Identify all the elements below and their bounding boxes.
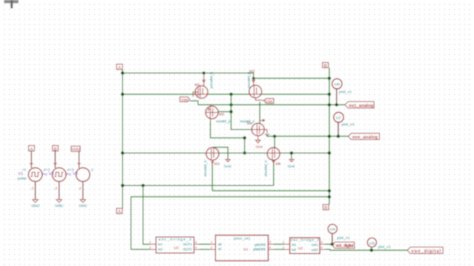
dc source V3	[76, 168, 90, 182]
svg-text:M1: M1	[195, 82, 201, 87]
V1 value labels	[18, 168, 48, 181]
svg-text:vo1_digital: vo1_digital	[336, 243, 354, 248]
svg-text:B: B	[54, 146, 57, 151]
junction A-H3	[121, 184, 124, 187]
svg-text:VDD: VDD	[71, 147, 80, 152]
svg-text:B: B	[324, 63, 327, 68]
node label B (source V2)	[52, 146, 58, 152]
wire H2 gate rail	[123, 93, 330, 95]
pin 4 dac out2	[320, 248, 325, 250]
pin 3 dac out1	[320, 243, 325, 245]
junction H3 drop	[141, 184, 144, 187]
svg-text:in2: in2	[292, 248, 297, 252]
svg-text:U3: U3	[298, 246, 303, 250]
svg-text:adc_bridge_2: adc_bridge_2	[159, 238, 192, 242]
wire H5 to adc in2	[131, 248, 150, 250]
dac_bridge U3	[290, 238, 320, 254]
pmos M4 (middle right)	[240, 119, 269, 140]
wire Vdd rail mid	[198, 104, 345, 106]
wire adc out1 to asic a0	[199, 243, 210, 245]
wire H5	[131, 197, 329, 250]
pin 3 asic out1	[268, 243, 273, 245]
svg-text:out1: out1	[311, 243, 318, 247]
net tag vo1_digital	[332, 242, 354, 248]
wire H1 top rail	[123, 73, 330, 78]
junction H1 step	[252, 77, 255, 80]
net tag vo1_analog	[345, 102, 374, 108]
junction N2 top tap	[273, 135, 276, 138]
svg-text:in1: in1	[158, 243, 163, 247]
node label A (top)	[117, 64, 123, 70]
svg-text:Gnd: Gnd	[224, 164, 231, 168]
pin 4 adc out2	[194, 248, 199, 250]
wire Vdd1 to rail	[190, 101, 198, 105]
svg-text:-2: -2	[90, 168, 93, 172]
junction M1 source-H1	[202, 72, 205, 75]
junction M5 gate	[230, 110, 233, 113]
wire out B mid	[267, 135, 348, 136]
svg-text:Vdd: Vdd	[265, 99, 272, 104]
wire M3 bulk down	[211, 163, 213, 191]
svg-text:U4: U4	[330, 227, 336, 232]
pin 1 dac in1	[284, 243, 289, 245]
pin 4 asic out2	[268, 248, 273, 250]
svg-text:U1: U1	[244, 247, 249, 251]
junction A-H1	[121, 71, 124, 74]
svg-text:Vdd: Vdd	[181, 97, 188, 102]
svg-text:mosfet_p: mosfet_p	[240, 119, 254, 123]
plot probe U5	[367, 238, 391, 250]
junction U4 pin	[331, 243, 334, 246]
svg-text:M5: M5	[219, 112, 224, 116]
svg-text:-2: -2	[54, 187, 57, 191]
svg-text:M3: M3	[214, 162, 219, 166]
node label B (top)	[323, 62, 329, 68]
svg-text:U5: U5	[369, 240, 375, 245]
wire M6 to gnd	[291, 153, 293, 159]
svg-text:pmosfet_h: pmosfet_h	[247, 72, 251, 88]
wire x231 vertical to gates	[231, 94, 252, 129]
svg-text:vo1_analog: vo1_analog	[349, 103, 374, 108]
svg-text:plot_v1: plot_v1	[378, 244, 392, 249]
svg-text:PU: PU	[66, 172, 71, 176]
svg-text:-2: -2	[31, 187, 34, 191]
ground Gnd (M4)	[256, 140, 263, 149]
svg-text:M6: M6	[276, 162, 281, 166]
svg-text:in2: in2	[158, 248, 163, 252]
junction U6 pin	[335, 103, 338, 106]
svg-text:von_analog: von_analog	[352, 135, 378, 140]
wire V1 top pin	[30, 151, 32, 168]
svg-text:von_digital: von_digital	[411, 249, 441, 254]
svg-text:plot_v1: plot_v1	[339, 89, 353, 94]
wire V2 top pin	[54, 151, 56, 168]
svg-text:V3: V3	[73, 171, 79, 176]
pin 2 dac in2	[284, 248, 289, 250]
ground Gnd (M6)	[288, 159, 295, 168]
wire M6 top feed	[259, 102, 261, 123]
junction U5 pin	[370, 249, 373, 252]
pmos M5	[206, 105, 231, 124]
wire M3 pin1 to gnd	[214, 147, 228, 159]
V3 value labels	[70, 168, 94, 176]
power tag Vdd (right)	[264, 99, 274, 104]
svg-text:GND: GND	[55, 204, 64, 208]
nmos M3	[204, 147, 220, 177]
pmos M1	[193, 72, 214, 98]
svg-text:Gnd: Gnd	[288, 164, 295, 168]
svg-text:pmosfet_h: pmosfet_h	[210, 72, 214, 88]
svg-text:plot_v1: plot_v1	[337, 235, 351, 240]
net tag von_digital	[407, 247, 443, 253]
net tag von_analog	[348, 133, 379, 139]
svg-text:a1: a1	[218, 247, 222, 251]
wire dac out1 to tag	[325, 243, 332, 245]
plot probe U6	[332, 79, 353, 105]
junction at N row	[243, 151, 246, 154]
node label A (source V1)	[29, 146, 35, 152]
junction U7 pin	[337, 135, 340, 138]
svg-text:OUT1: OUT1	[183, 243, 192, 247]
junction B-Nrow	[328, 151, 331, 154]
svg-text:B: B	[324, 205, 327, 210]
pulse source V1	[28, 168, 42, 182]
svg-text:V2: V2	[49, 171, 55, 176]
wire M6 bulk down	[273, 163, 275, 186]
pin 3 adc out1	[194, 243, 199, 245]
svg-text:in1: in1	[292, 243, 297, 247]
ground GND (V1)	[31, 200, 40, 208]
power tag Vdd (left)	[180, 97, 190, 102]
plot probe U4	[328, 224, 351, 244]
ground GND (V3)	[79, 200, 88, 208]
ground GND (V2)	[55, 200, 64, 208]
svg-text:mosfet_p: mosfet_p	[216, 119, 230, 123]
wire N2 top feed	[274, 136, 276, 148]
cursor crosshair	[4, 0, 19, 8]
junction B mid	[328, 135, 331, 138]
junction B-H5	[328, 195, 331, 198]
node label A (bottom)	[117, 208, 123, 214]
plot probe U7	[334, 112, 356, 136]
svg-text:nmosfet_b: nmosfet_b	[264, 160, 268, 176]
junction B-H2	[328, 93, 331, 96]
svg-text:OUT2: OUT2	[183, 248, 192, 252]
wire adc out2 to asic a1	[199, 248, 210, 250]
svg-text:(asic_ve): (asic_ve)	[234, 236, 250, 240]
wire M5 gate	[218, 111, 231, 113]
junction H2-x231	[230, 93, 233, 96]
wire N row	[123, 152, 330, 154]
svg-text:nmosfet_b: nmosfet_b	[204, 160, 208, 176]
node label B (bottom)	[323, 205, 329, 211]
wire asic out2 to dac in2	[274, 248, 285, 250]
svg-text:-2: -2	[78, 187, 81, 191]
wire V1 to ground	[34, 182, 36, 200]
wire V3 top pin	[78, 151, 80, 168]
svg-text:PU: PU	[42, 172, 47, 176]
wire H3	[123, 185, 274, 187]
pmos M2	[247, 68, 264, 100]
pin 1 adc in1	[150, 243, 156, 245]
adc_bridge U2	[156, 237, 194, 253]
svg-text:U2: U2	[174, 246, 179, 250]
wire net A vertical	[122, 70, 124, 209]
wire V3 to ground	[82, 182, 84, 200]
wire V2 to ground	[58, 182, 60, 200]
wire M5 drain down-right	[210, 121, 244, 153]
junction B-H4	[328, 189, 331, 192]
junction rail-B	[328, 103, 331, 106]
svg-text:U6: U6	[334, 82, 340, 87]
pin 1 asic a0	[210, 243, 215, 245]
net label VDD (source V3)	[71, 146, 80, 151]
junction M5 drain corner	[243, 136, 246, 139]
ground Gnd (M3)	[224, 159, 231, 168]
svg-text:pulse: pulse	[18, 176, 27, 180]
svg-text:plot_v1: plot_v1	[342, 122, 356, 127]
pulse source V2	[52, 168, 66, 182]
junction A-Nrow	[121, 151, 124, 154]
svg-text:dac_bridge_2: dac_bridge_2	[291, 238, 319, 242]
nmos M6	[264, 148, 281, 177]
svg-text:GND: GND	[79, 204, 88, 208]
svg-text:yNMORE: yNMORE	[253, 247, 267, 251]
asic block U1	[216, 235, 269, 261]
junction A-H2	[121, 93, 124, 96]
pin 2 adc in2	[150, 248, 156, 250]
pin 2 asic a1	[210, 248, 215, 250]
junction B-H1	[328, 77, 331, 80]
svg-text:U7: U7	[336, 115, 342, 120]
junction rail-x231	[230, 103, 233, 106]
junction M6 gnd tap	[290, 151, 293, 154]
wire dac out2 long	[325, 248, 407, 251]
svg-text:out2: out2	[311, 248, 318, 252]
wire asic out1 to dac in1	[274, 243, 285, 245]
wire H3 to adc in1	[143, 186, 150, 245]
wire net B vertical	[328, 68, 330, 205]
svg-text:Gnd: Gnd	[256, 145, 263, 149]
wire H4	[212, 190, 329, 192]
V2 value labels	[46, 168, 72, 177]
svg-text:a0: a0	[218, 243, 222, 247]
svg-text:GND: GND	[31, 204, 40, 208]
